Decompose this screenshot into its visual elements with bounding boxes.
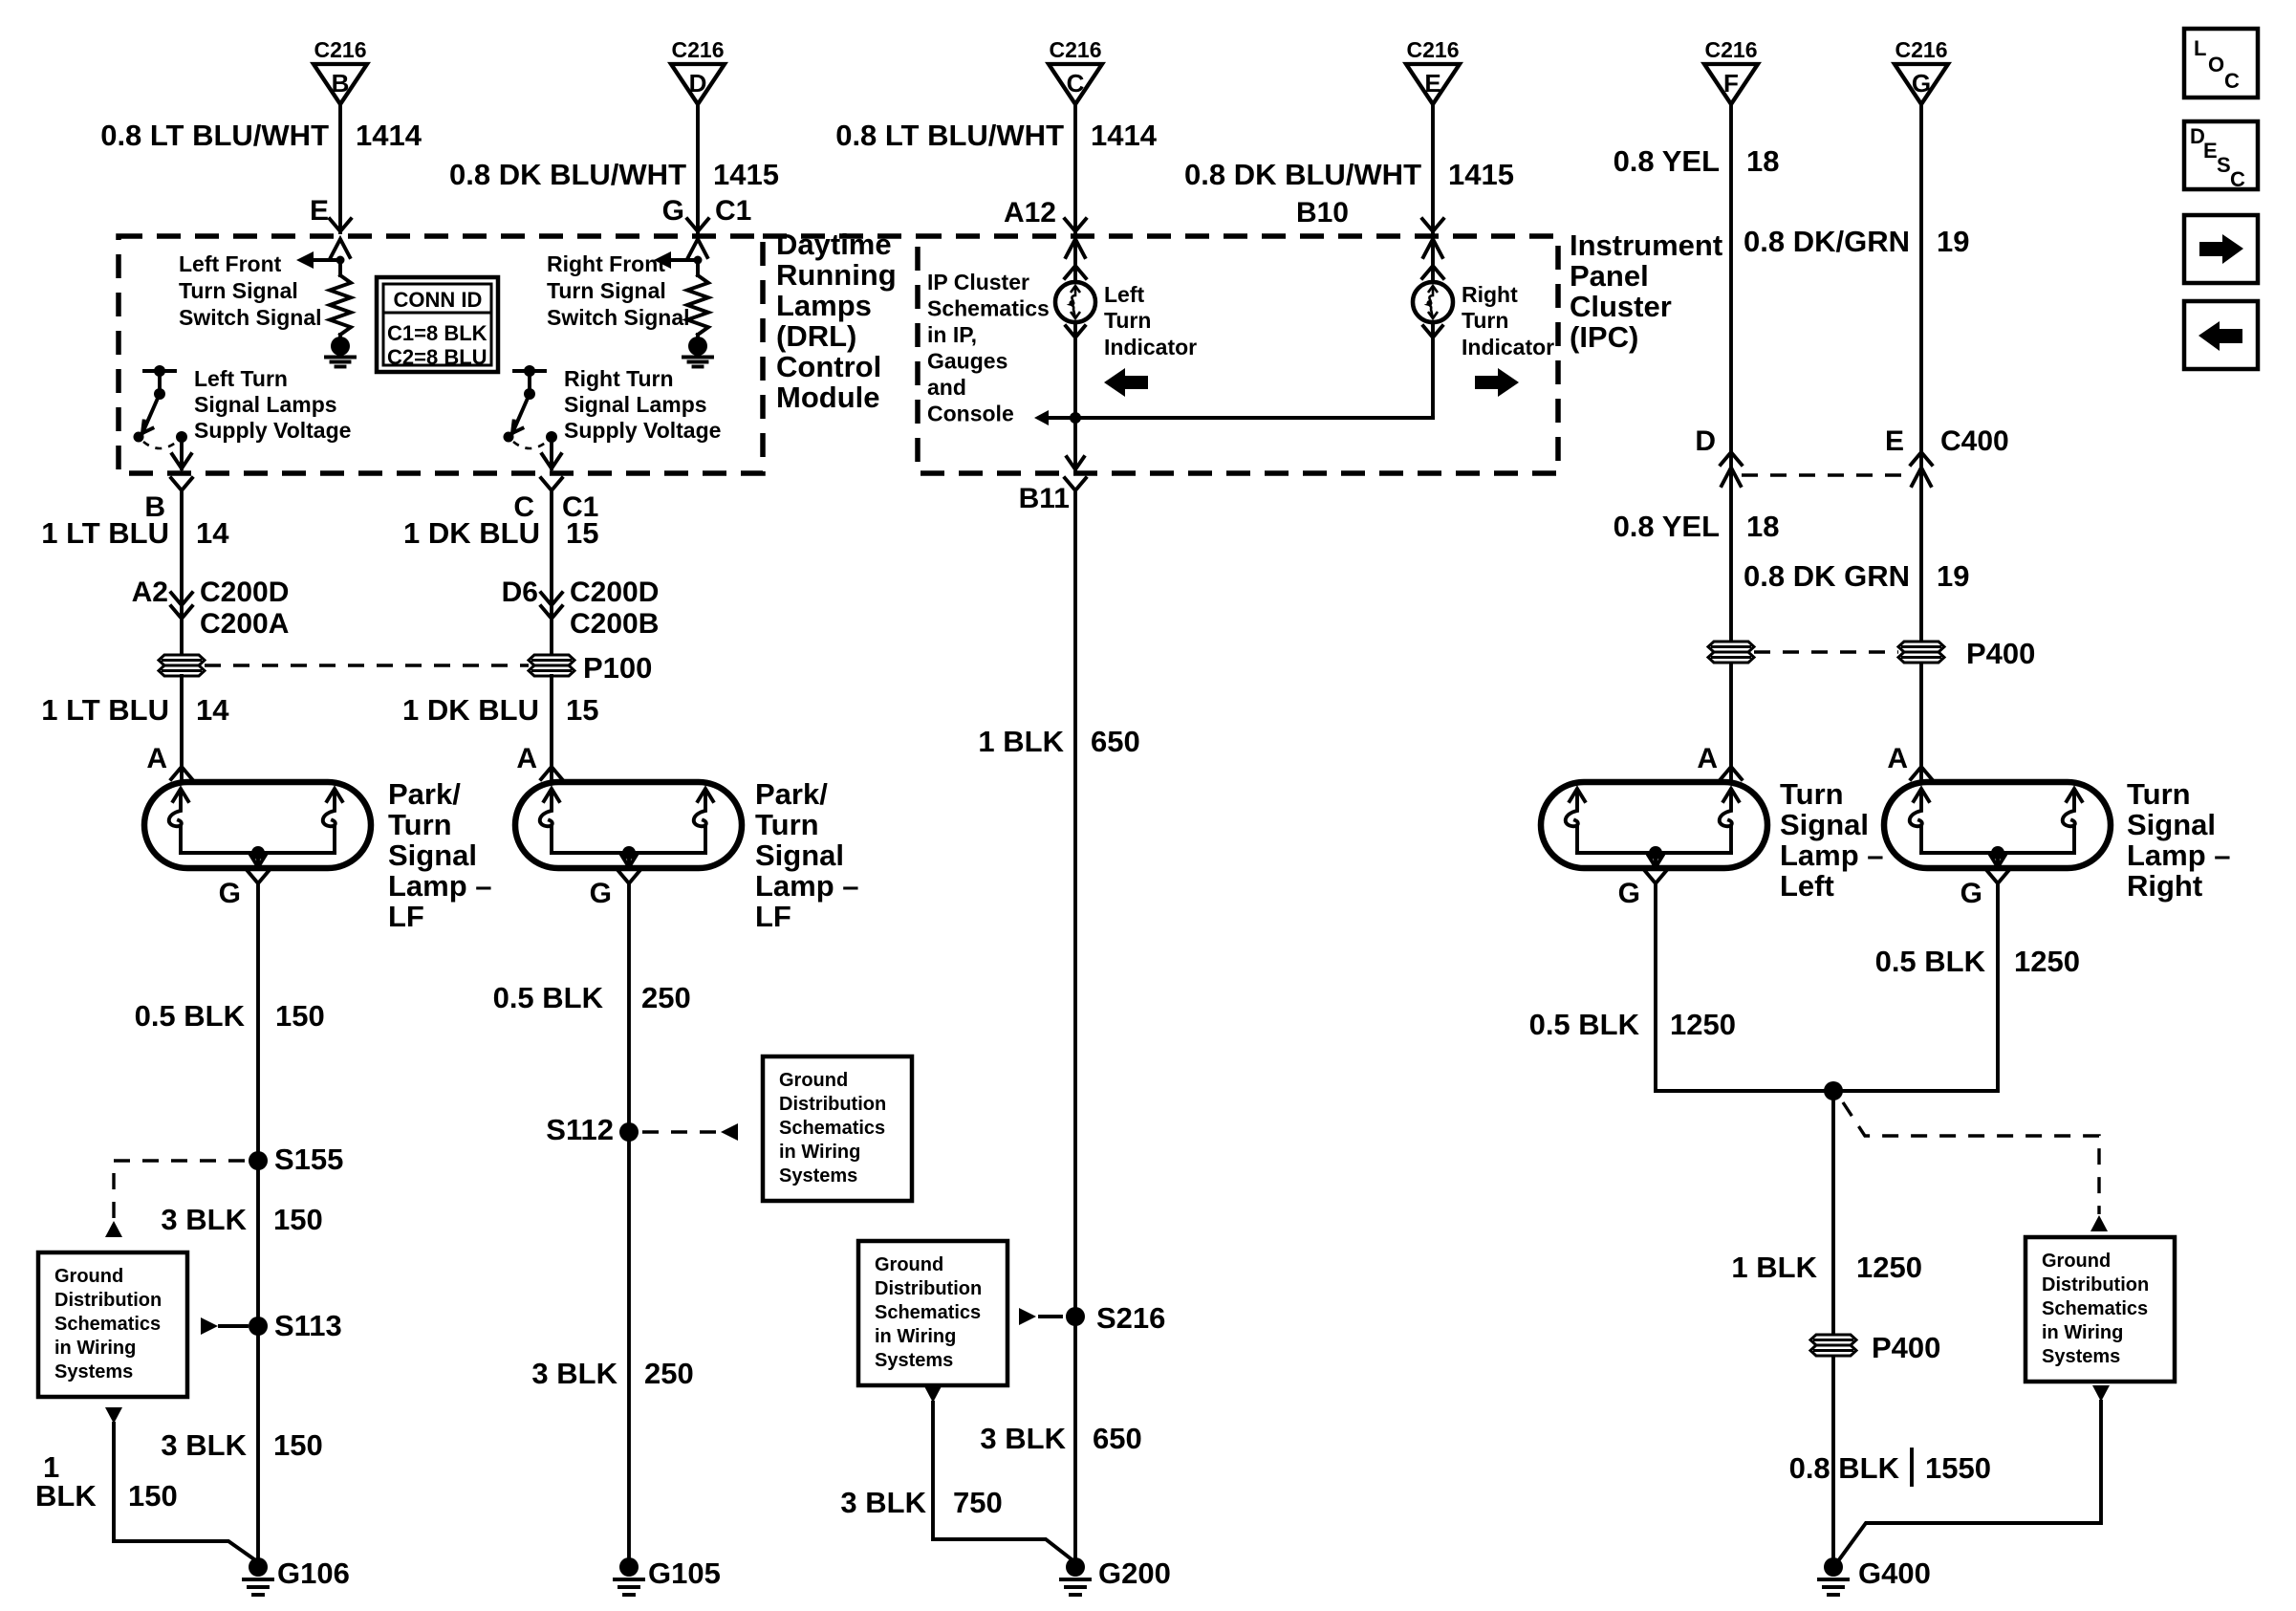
connector grommet C200 (left) (159, 655, 205, 665)
ground distribution reference box (left) (38, 1252, 187, 1397)
svg-text:C: C (1067, 69, 1085, 98)
svg-text:in Wiring: in Wiring (54, 1338, 136, 1359)
svg-text:1 DK BLU: 1 DK BLU (403, 516, 540, 550)
svg-text:A: A (1697, 743, 1718, 774)
svg-text:Lamp –: Lamp – (755, 869, 859, 903)
wire C216-G down to C400 (1919, 104, 1923, 475)
arrow to Left Front label (296, 251, 314, 269)
svg-text:Signal: Signal (755, 838, 844, 872)
svg-text:1414: 1414 (356, 119, 422, 152)
svg-text:Signal: Signal (1780, 808, 1869, 841)
splice S216 (1066, 1307, 1085, 1326)
svg-text:BLK: BLK (35, 1479, 97, 1513)
legend box DESC (2184, 121, 2258, 189)
ground G400 (1824, 1557, 1843, 1577)
svg-text:B: B (332, 69, 350, 98)
svg-text:Supply Voltage: Supply Voltage (564, 418, 721, 443)
svg-text:Park/: Park/ (388, 777, 461, 811)
arrow below left GD box (105, 1407, 122, 1424)
svg-text:1 LT BLU: 1 LT BLU (41, 516, 169, 550)
svg-text:Running: Running (776, 258, 897, 292)
ground (internal right) (688, 337, 707, 356)
svg-text:G: G (219, 878, 241, 909)
svg-text:G400: G400 (1858, 1557, 1931, 1590)
svg-text:A: A (1887, 743, 1908, 774)
splice S113 (249, 1317, 268, 1336)
svg-text:C200B: C200B (570, 608, 659, 640)
indicator lamp: Right Turn Indicator (1413, 282, 1453, 322)
svg-text:E: E (1424, 69, 1440, 98)
dashed link junction to GD box (right) (1843, 1102, 2099, 1214)
svg-text:150: 150 (275, 999, 325, 1033)
svg-text:C2=8 BLU: C2=8 BLU (387, 345, 487, 369)
svg-text:E: E (1885, 425, 1904, 457)
lamp: Park/Turn Signal Lamp - LF (right) (515, 782, 742, 868)
svg-text:P100: P100 (583, 651, 652, 685)
svg-text:Systems: Systems (54, 1361, 133, 1382)
wire P400 to lamp right (1919, 664, 1923, 780)
connector grommet P400 (right) (1898, 642, 1944, 652)
svg-text:0.8 LT BLU/WHT: 0.8 LT BLU/WHT (100, 119, 329, 152)
svg-text:15: 15 (566, 516, 598, 550)
svg-text:C216: C216 (314, 37, 367, 62)
svg-text:CONN ID: CONN ID (394, 288, 483, 312)
wire B down (180, 490, 184, 655)
svg-text:0.5 BLK: 0.5 BLK (135, 999, 246, 1033)
svg-text:E: E (310, 195, 329, 227)
svg-text:C400: C400 (1940, 425, 2009, 457)
svg-text:Indicator: Indicator (1462, 335, 1554, 359)
svg-text:G: G (662, 195, 684, 227)
svg-text:in Wiring: in Wiring (2042, 1322, 2123, 1343)
svg-text:Panel: Panel (1570, 259, 1649, 293)
svg-text:1415: 1415 (1448, 158, 1514, 191)
svg-text:Indicator: Indicator (1104, 335, 1197, 359)
resistor (left pull) (338, 260, 342, 275)
svg-text:250: 250 (644, 1357, 694, 1390)
svg-text:Turn: Turn (388, 808, 452, 841)
svg-text:G106: G106 (277, 1557, 350, 1590)
svg-text:in Wiring: in Wiring (779, 1142, 860, 1163)
svg-text:Cluster: Cluster (1570, 290, 1672, 323)
svg-text:A2: A2 (132, 577, 168, 608)
svg-text:C200A: C200A (200, 608, 289, 640)
arrow below right GD box (2092, 1385, 2110, 1402)
svg-text:Systems: Systems (875, 1350, 953, 1371)
svg-text:F: F (1723, 69, 1739, 98)
Instrument Panel Cluster (IPC) box (dashed) (918, 236, 1558, 473)
svg-text:1 DK BLU: 1 DK BLU (402, 693, 539, 727)
wire C216-C to IPC pin A12 (1073, 104, 1077, 232)
lamp: Turn Signal Lamp - Left (1541, 782, 1767, 868)
svg-text:1 BLK: 1 BLK (1731, 1251, 1817, 1284)
svg-text:Lamp –: Lamp – (2127, 838, 2231, 872)
switch: left turn signal lamps supply (144, 369, 175, 373)
Daytime Running Lamps (DRL) Control Module box (dashed) (119, 236, 763, 473)
wire GD box to G400 (1840, 1402, 2101, 1558)
svg-text:1414: 1414 (1091, 119, 1158, 152)
svg-text:in IP,: in IP, (927, 322, 977, 347)
svg-text:Lamp –: Lamp – (1780, 838, 1884, 872)
svg-text:B10: B10 (1296, 197, 1349, 229)
legend box left arrow (2184, 301, 2258, 369)
dashed link S155 to GD box (114, 1161, 245, 1220)
svg-text:C1=8 BLK: C1=8 BLK (387, 321, 487, 345)
ground distribution reference box (middle) (858, 1241, 1007, 1385)
svg-text:Switch Signal: Switch Signal (179, 305, 322, 330)
svg-text:Schematics: Schematics (779, 1118, 885, 1139)
svg-text:C200D: C200D (570, 577, 659, 608)
svg-text:14: 14 (196, 693, 229, 727)
wire C216-B to DRL module pin E (338, 104, 342, 232)
node: ground junction (1824, 1081, 1843, 1100)
svg-text:Signal: Signal (2127, 808, 2216, 841)
svg-text:(DRL): (DRL) (776, 319, 856, 353)
wire C216-E to IPC pin B10 (1431, 104, 1435, 232)
svg-text:Right: Right (2127, 869, 2202, 903)
svg-text:1415: 1415 (713, 158, 779, 191)
svg-text:G105: G105 (648, 1557, 721, 1590)
svg-text:150: 150 (273, 1203, 323, 1236)
svg-text:C1: C1 (715, 195, 751, 227)
svg-text:Left Front: Left Front (179, 251, 282, 276)
svg-text:G: G (1912, 69, 1931, 98)
dashed link S112 to GD box (642, 1130, 717, 1133)
svg-text:Ground: Ground (779, 1070, 848, 1091)
svg-text:14: 14 (196, 516, 229, 550)
svg-text:(IPC): (IPC) (1570, 320, 1638, 354)
svg-text:O: O (2208, 53, 2224, 76)
wire junction to B11 (1073, 418, 1077, 470)
wire A12 to left turn indicator (1073, 236, 1077, 282)
big right arrow (right turn) (1475, 368, 1519, 397)
svg-text:C216: C216 (1705, 37, 1758, 62)
wire P400 to lamp left (1729, 664, 1733, 780)
svg-text:and: and (927, 375, 966, 400)
svg-text:0.8 YEL: 0.8 YEL (1614, 144, 1720, 178)
wire to lamp LF (180, 676, 184, 780)
svg-text:Schematics: Schematics (927, 296, 1050, 321)
svg-text:Systems: Systems (2042, 1346, 2120, 1367)
svg-text:0.8 LT BLU/WHT: 0.8 LT BLU/WHT (835, 119, 1064, 152)
svg-text:Turn: Turn (2127, 777, 2191, 811)
svg-text:1 LT BLU: 1 LT BLU (41, 693, 169, 727)
dashed link C400 (1742, 473, 1911, 476)
arrow below middle GD box (924, 1386, 942, 1403)
switch: right turn signal lamps supply (514, 369, 545, 373)
svg-text:Lamp –: Lamp – (388, 869, 492, 903)
splice S155 (249, 1151, 268, 1170)
arrow to Right Front label (654, 251, 671, 269)
ground G106 (249, 1557, 268, 1577)
svg-text:Left: Left (1780, 869, 1834, 903)
svg-text:D: D (1695, 425, 1716, 457)
svg-text:3 BLK: 3 BLK (161, 1203, 247, 1236)
wire: indicators common return (1075, 416, 1433, 420)
ground G200 (1066, 1557, 1085, 1577)
wire below left indicator (1066, 326, 1085, 337)
svg-text:650: 650 (1093, 1422, 1142, 1455)
svg-text:Turn: Turn (1462, 308, 1508, 333)
svg-text:G: G (1960, 878, 1982, 909)
svg-text:G: G (1618, 878, 1640, 909)
svg-text:0.5 BLK: 0.5 BLK (493, 981, 604, 1014)
wire GD box to G106 (114, 1424, 254, 1559)
svg-text:Schematics: Schematics (2042, 1298, 2148, 1319)
arrow to Console label (1049, 416, 1075, 420)
svg-text:Systems: Systems (779, 1165, 857, 1186)
svg-text:0.8 DK BLU/WHT: 0.8 DK BLU/WHT (1184, 158, 1421, 191)
svg-text:Instrument: Instrument (1570, 229, 1722, 262)
svg-text:LF: LF (755, 900, 791, 933)
svg-text:250: 250 (641, 981, 691, 1014)
svg-text:19: 19 (1937, 559, 1969, 593)
svg-text:Right: Right (1462, 282, 1518, 307)
svg-text:S: S (2217, 153, 2231, 177)
wire C down (550, 490, 553, 655)
svg-text:3 BLK: 3 BLK (161, 1428, 247, 1462)
svg-text:Console: Console (927, 402, 1014, 426)
svg-text:IP Cluster: IP Cluster (927, 270, 1029, 294)
node: right front turn signal output junction (694, 256, 703, 265)
wire C216-F down to C400 (1729, 104, 1733, 475)
svg-text:Ground: Ground (875, 1254, 943, 1275)
wire C216-D to DRL module pin G C1 (696, 104, 700, 232)
svg-text:Supply Voltage: Supply Voltage (194, 418, 351, 443)
resistor (right pull) (696, 260, 700, 275)
svg-text:1550: 1550 (1925, 1451, 1991, 1485)
ground distribution reference box (S112) (763, 1056, 912, 1201)
lamp: Turn Signal Lamp - Right (1884, 782, 2111, 868)
svg-text:0.5 BLK: 0.5 BLK (1529, 1008, 1640, 1041)
svg-text:D6: D6 (502, 577, 538, 608)
svg-text:Distribution: Distribution (779, 1094, 886, 1115)
wire GD box to G200 (933, 1403, 1072, 1559)
svg-text:Park/: Park/ (755, 777, 828, 811)
svg-text:E: E (2203, 139, 2218, 163)
svg-text:Right Turn: Right Turn (564, 366, 674, 391)
legend box right arrow (2184, 215, 2258, 283)
svg-text:Gauges: Gauges (927, 349, 1007, 374)
svg-text:Right Front: Right Front (547, 251, 665, 276)
svg-text:A: A (146, 743, 167, 774)
svg-text:C216: C216 (1407, 37, 1460, 62)
wire below right indicator (1423, 326, 1442, 337)
svg-text:S113: S113 (274, 1309, 342, 1342)
svg-text:Control: Control (776, 350, 881, 383)
lamp: Park/Turn Signal Lamp - LF (left) (144, 782, 371, 868)
svg-text:Schematics: Schematics (875, 1302, 981, 1323)
svg-text:0.8 DK BLU/WHT: 0.8 DK BLU/WHT (449, 158, 686, 191)
svg-text:650: 650 (1091, 725, 1140, 758)
svg-text:3 BLK: 3 BLK (531, 1357, 617, 1390)
svg-text:Daytime: Daytime (776, 228, 892, 261)
svg-text:Turn Signal: Turn Signal (547, 278, 666, 303)
splice S112 (619, 1122, 639, 1142)
svg-text:3 BLK: 3 BLK (980, 1422, 1066, 1455)
svg-text:Turn: Turn (755, 808, 819, 841)
svg-text:18: 18 (1746, 510, 1779, 543)
svg-text:Signal: Signal (388, 838, 477, 872)
svg-text:in Wiring: in Wiring (875, 1326, 956, 1347)
svg-text:Left: Left (1104, 282, 1145, 307)
svg-text:S112: S112 (546, 1113, 614, 1146)
svg-text:Distribution: Distribution (2042, 1274, 2149, 1295)
svg-text:D: D (689, 69, 707, 98)
svg-text:1250: 1250 (1670, 1008, 1736, 1041)
legend box LOC (2184, 29, 2258, 98)
svg-text:Distribution: Distribution (875, 1278, 982, 1299)
svg-text:19: 19 (1937, 225, 1969, 258)
wire to lamp LF 2 (550, 676, 553, 780)
wire S216 to G200 (1073, 1317, 1077, 1558)
svg-text:A: A (516, 743, 537, 774)
svg-text:3 BLK: 3 BLK (840, 1486, 926, 1519)
svg-text:0.8 BLK: 0.8 BLK (1789, 1451, 1900, 1485)
wire B10 to right turn indicator (1431, 236, 1435, 282)
svg-text:750: 750 (953, 1486, 1003, 1519)
wire C400 to P400 right (1919, 475, 1923, 642)
wire P400 to G400 (1831, 1357, 1835, 1558)
svg-text:Schematics: Schematics (54, 1314, 161, 1335)
svg-text:G: G (590, 878, 612, 909)
svg-text:C216: C216 (1050, 37, 1102, 62)
wire C400 to P400 left (1729, 475, 1733, 642)
dashed link C200 to P100 (205, 664, 529, 666)
link arrow from ground distribution box to S216 (1019, 1308, 1036, 1325)
svg-text:C200D: C200D (200, 577, 289, 608)
connector grommet P100 (529, 655, 574, 665)
svg-text:18: 18 (1746, 144, 1779, 178)
svg-text:Switch Signal: Switch Signal (547, 305, 690, 330)
svg-text:0.5 BLK: 0.5 BLK (1875, 945, 1986, 978)
svg-text:B11: B11 (1019, 483, 1070, 514)
svg-text:Signal Lamps: Signal Lamps (564, 392, 707, 417)
connector grommet P400 (lower) (1810, 1335, 1856, 1345)
connector grommet P400 (left) (1708, 642, 1754, 652)
svg-text:P400: P400 (1872, 1331, 1940, 1364)
svg-text:C: C (2230, 167, 2245, 191)
svg-text:1250: 1250 (2014, 945, 2080, 978)
svg-text:Left Turn: Left Turn (194, 366, 288, 391)
ground G105 (619, 1557, 639, 1577)
svg-text:G200: G200 (1098, 1557, 1171, 1590)
svg-text:LF: LF (388, 900, 424, 933)
svg-text:15: 15 (566, 693, 598, 727)
svg-text:S155: S155 (274, 1143, 343, 1176)
svg-text:C: C (2224, 69, 2240, 93)
wire junction to G400 (1831, 1091, 1835, 1334)
svg-text:150: 150 (273, 1428, 323, 1462)
svg-text:L: L (2194, 36, 2206, 60)
indicator lamp: Left Turn Indicator (1055, 282, 1095, 322)
node: indicator return junction (1070, 412, 1081, 424)
svg-text:A12: A12 (1004, 197, 1056, 229)
svg-text:C216: C216 (672, 37, 725, 62)
svg-text:Turn: Turn (1780, 777, 1844, 811)
ground distribution reference box (right) (2025, 1237, 2175, 1382)
node: left front turn signal output junction (336, 256, 345, 265)
svg-text:Module: Module (776, 381, 880, 414)
wire B11 to S216 (1073, 490, 1077, 1317)
wire lamp G to G105 (627, 883, 631, 1558)
big left arrow (left turn) (1104, 368, 1148, 397)
CONN ID table (377, 277, 498, 372)
svg-text:1 BLK: 1 BLK (978, 725, 1064, 758)
link arrow from GD box to S113 (201, 1317, 218, 1335)
svg-text:Ground: Ground (54, 1266, 123, 1287)
dashed link P400 (1754, 650, 1898, 653)
ground (internal left) (331, 337, 350, 356)
svg-text:0.8 YEL: 0.8 YEL (1614, 510, 1720, 543)
svg-text:Turn Signal: Turn Signal (179, 278, 298, 303)
svg-text:S216: S216 (1096, 1301, 1165, 1335)
wire lamp grounds join (1656, 883, 1998, 1091)
svg-text:Ground: Ground (2042, 1251, 2111, 1272)
svg-text:150: 150 (128, 1479, 178, 1513)
svg-text:Signal Lamps: Signal Lamps (194, 392, 337, 417)
svg-text:0.8 DK GRN: 0.8 DK GRN (1744, 559, 1910, 593)
svg-text:1250: 1250 (1856, 1251, 1922, 1284)
svg-text:P400: P400 (1966, 637, 2035, 670)
svg-text:C216: C216 (1895, 37, 1948, 62)
wire lamp G to G106 (256, 883, 260, 1558)
svg-text:Turn: Turn (1104, 308, 1151, 333)
svg-text:0.8 DK/GRN: 0.8 DK/GRN (1744, 225, 1910, 258)
svg-text:Lamps: Lamps (776, 289, 872, 322)
dashed link between DRL box and IPC box (763, 233, 918, 239)
svg-text:Distribution: Distribution (54, 1290, 162, 1311)
